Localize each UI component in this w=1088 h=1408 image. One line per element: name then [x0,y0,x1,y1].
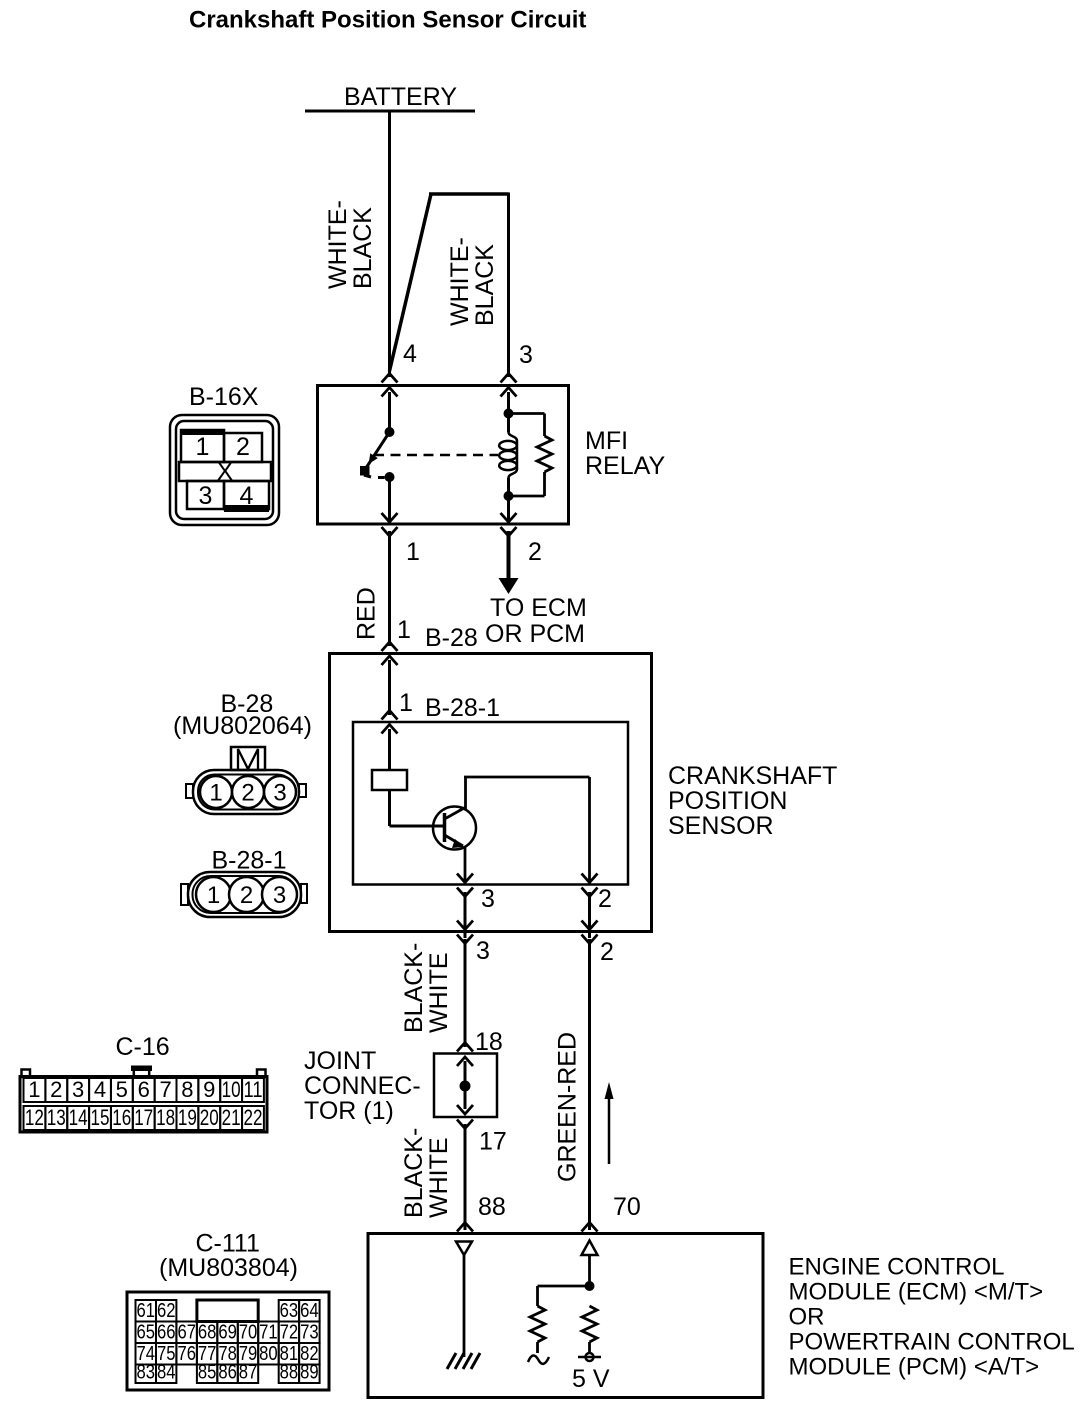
svg-text:3: 3 [273,780,286,807]
svg-text:POSITION: POSITION [668,787,787,815]
svg-text:3: 3 [476,937,490,965]
svg-text:RED: RED [353,587,381,640]
svg-text:88: 88 [478,1193,506,1221]
svg-text:68: 68 [198,1322,217,1344]
svg-text:22: 22 [244,1105,263,1130]
svg-text:CONNEC-: CONNEC- [304,1072,421,1100]
svg-text:83: 83 [137,1362,156,1384]
svg-text:RELAY: RELAY [585,452,665,480]
svg-text:73: 73 [300,1322,319,1344]
svg-text:(MU803804): (MU803804) [159,1254,298,1282]
svg-text:3: 3 [273,882,286,909]
svg-text:1: 1 [209,780,222,807]
svg-text:15: 15 [91,1105,110,1130]
svg-text:17: 17 [134,1105,153,1130]
svg-text:65: 65 [137,1322,156,1344]
svg-text:71: 71 [259,1322,278,1344]
svg-text:WHITE-: WHITE- [324,200,352,289]
svg-text:2: 2 [50,1077,62,1102]
svg-text:1: 1 [207,882,220,909]
svg-text:(MU802064): (MU802064) [173,712,312,740]
svg-text:89: 89 [300,1362,319,1384]
svg-text:TOR (1): TOR (1) [304,1097,394,1125]
svg-text:5 V: 5 V [572,1365,610,1393]
svg-text:61: 61 [137,1300,156,1322]
svg-text:GREEN-RED: GREEN-RED [554,1032,582,1182]
svg-text:63: 63 [280,1300,299,1322]
svg-text:BLACK: BLACK [471,244,499,326]
svg-text:OR PCM: OR PCM [485,620,585,648]
svg-text:1: 1 [397,616,411,644]
svg-text:76: 76 [177,1343,196,1365]
svg-text:10: 10 [222,1077,241,1102]
svg-text:18: 18 [475,1028,503,1056]
svg-text:WHITE: WHITE [425,1137,453,1218]
svg-text:11: 11 [244,1077,263,1102]
svg-text:B-28-1: B-28-1 [425,694,500,722]
svg-text:OR: OR [789,1304,825,1331]
svg-text:64: 64 [300,1300,319,1322]
svg-text:3: 3 [481,885,495,913]
svg-text:BLACK: BLACK [349,207,377,289]
svg-text:X: X [217,458,234,486]
svg-text:87: 87 [239,1362,258,1384]
svg-text:BLACK-: BLACK- [400,1128,428,1218]
svg-text:Crankshaft Position Sensor Cir: Crankshaft Position Sensor Circuit [189,7,586,34]
svg-text:ENGINE CONTROL: ENGINE CONTROL [789,1254,1005,1281]
svg-text:B-28: B-28 [425,624,478,652]
svg-text:B-16X: B-16X [189,383,259,411]
svg-text:18: 18 [156,1105,175,1130]
svg-text:8: 8 [181,1077,193,1102]
svg-text:BATTERY: BATTERY [344,83,457,111]
svg-text:4: 4 [94,1077,106,1102]
svg-text:2: 2 [240,882,253,909]
svg-text:62: 62 [157,1300,176,1322]
svg-text:19: 19 [178,1105,197,1130]
svg-text:1: 1 [399,689,413,717]
svg-text:16: 16 [112,1105,131,1130]
svg-text:BLACK-: BLACK- [400,943,428,1033]
svg-text:3: 3 [519,341,533,369]
svg-text:4: 4 [240,482,254,510]
svg-text:5: 5 [116,1077,128,1102]
svg-text:70: 70 [239,1322,258,1344]
svg-text:B-28-1: B-28-1 [212,847,287,875]
svg-text:9: 9 [203,1077,215,1102]
svg-text:1: 1 [196,433,210,461]
svg-text:21: 21 [222,1105,241,1130]
svg-text:6: 6 [138,1077,150,1102]
svg-text:17: 17 [479,1128,507,1156]
svg-text:4: 4 [403,340,417,368]
svg-text:67: 67 [177,1322,196,1344]
svg-text:72: 72 [280,1322,299,1344]
svg-text:1: 1 [28,1077,40,1102]
svg-text:66: 66 [157,1322,176,1344]
svg-text:80: 80 [259,1343,278,1365]
svg-text:3: 3 [72,1077,84,1102]
svg-text:MFI: MFI [585,427,628,455]
svg-text:69: 69 [218,1322,237,1344]
svg-text:2: 2 [600,938,614,966]
svg-text:88: 88 [280,1362,299,1384]
svg-text:C-16: C-16 [116,1033,170,1061]
svg-text:WHITE-: WHITE- [446,237,474,326]
svg-text:POWERTRAIN CONTROL: POWERTRAIN CONTROL [789,1329,1075,1356]
svg-text:SENSOR: SENSOR [668,812,774,840]
svg-text:20: 20 [200,1105,219,1130]
svg-text:JOINT: JOINT [304,1047,376,1075]
svg-text:TO ECM: TO ECM [490,594,587,622]
svg-text:MODULE (ECM) <M/T>: MODULE (ECM) <M/T> [789,1279,1044,1306]
svg-text:2: 2 [241,780,254,807]
svg-text:84: 84 [157,1362,176,1384]
svg-text:12: 12 [25,1105,44,1130]
svg-text:2: 2 [528,538,542,566]
svg-text:70: 70 [613,1193,641,1221]
svg-text:3: 3 [199,482,213,510]
svg-text:1: 1 [406,538,420,566]
svg-text:85: 85 [198,1362,217,1384]
svg-text:MODULE (PCM) <A/T>: MODULE (PCM) <A/T> [789,1354,1040,1381]
svg-text:WHITE: WHITE [425,952,453,1033]
svg-text:CRANKSHAFT: CRANKSHAFT [668,762,837,790]
svg-text:14: 14 [69,1105,88,1130]
svg-text:2: 2 [598,885,612,913]
svg-text:86: 86 [218,1362,237,1384]
svg-text:7: 7 [159,1077,171,1102]
svg-text:2: 2 [236,433,250,461]
svg-text:13: 13 [47,1105,66,1130]
